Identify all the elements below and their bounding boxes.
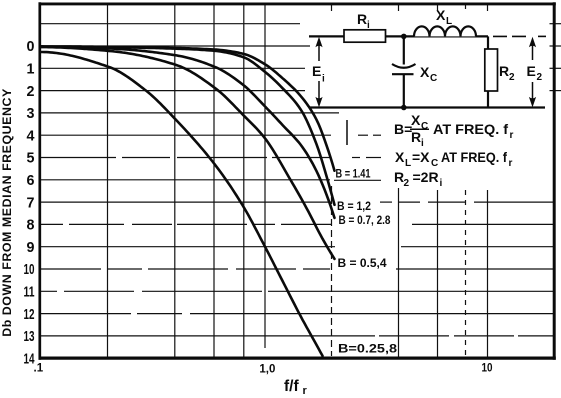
svg-text:9: 9 xyxy=(27,240,35,256)
svg-text:C: C xyxy=(421,121,428,132)
svg-text:E: E xyxy=(527,63,536,79)
svg-text:2: 2 xyxy=(509,72,515,83)
svg-text:AT FREQ. f: AT FREQ. f xyxy=(441,149,507,165)
svg-text:10: 10 xyxy=(482,363,493,375)
svg-text:i: i xyxy=(440,178,443,189)
svg-text:0: 0 xyxy=(27,39,35,55)
svg-text:E: E xyxy=(312,63,321,79)
svg-text:r: r xyxy=(509,158,513,169)
svg-text:7: 7 xyxy=(27,195,35,211)
svg-text:R: R xyxy=(411,129,421,145)
svg-text:6: 6 xyxy=(27,173,35,189)
svg-text:B=0.25,8: B=0.25,8 xyxy=(338,342,397,356)
svg-text:r: r xyxy=(303,385,308,397)
svg-text:f/f: f/f xyxy=(284,378,299,395)
svg-text:=X: =X xyxy=(412,149,430,165)
svg-text:L: L xyxy=(446,16,452,27)
svg-text:2: 2 xyxy=(537,72,543,83)
svg-text:5: 5 xyxy=(27,151,35,167)
svg-text:C: C xyxy=(431,158,438,169)
svg-text:2: 2 xyxy=(27,84,35,100)
svg-text:B = 1,2: B = 1,2 xyxy=(337,199,371,213)
svg-text:AT FREQ. f: AT FREQ. f xyxy=(433,121,508,137)
svg-text:11: 11 xyxy=(24,285,35,301)
svg-text:X: X xyxy=(395,149,405,165)
svg-text:10: 10 xyxy=(24,262,35,278)
svg-text:X: X xyxy=(420,64,430,80)
svg-text:i: i xyxy=(367,20,370,31)
svg-text:R: R xyxy=(499,63,509,79)
svg-text:=2R: =2R xyxy=(413,169,439,185)
svg-text:1,0: 1,0 xyxy=(259,364,275,376)
svg-text:Db DOWN FROM MEDIAN FREQUENCY: Db DOWN FROM MEDIAN FREQUENCY xyxy=(0,88,14,337)
svg-text:C: C xyxy=(430,73,437,84)
svg-text:13: 13 xyxy=(24,329,35,345)
svg-text:8: 8 xyxy=(27,218,35,234)
svg-text:3: 3 xyxy=(27,106,35,122)
svg-text:B=: B= xyxy=(394,121,412,137)
svg-text:1: 1 xyxy=(27,62,35,78)
svg-text:B = 1.41: B = 1.41 xyxy=(336,167,371,181)
svg-text:B = 0.7, 2.8: B = 0.7, 2.8 xyxy=(339,213,391,227)
svg-text:L: L xyxy=(405,158,411,169)
svg-text:2: 2 xyxy=(404,178,410,189)
svg-text:X: X xyxy=(411,112,421,128)
svg-text:X: X xyxy=(436,7,446,23)
svg-text:i: i xyxy=(421,138,424,149)
svg-text:.1: .1 xyxy=(34,363,44,375)
svg-text:i: i xyxy=(322,74,325,85)
svg-text:r: r xyxy=(510,130,514,141)
svg-text:R: R xyxy=(357,11,367,27)
svg-text:4: 4 xyxy=(27,128,35,144)
svg-text:12: 12 xyxy=(24,307,35,323)
svg-text:B = 0.5,4: B = 0.5,4 xyxy=(338,256,387,270)
